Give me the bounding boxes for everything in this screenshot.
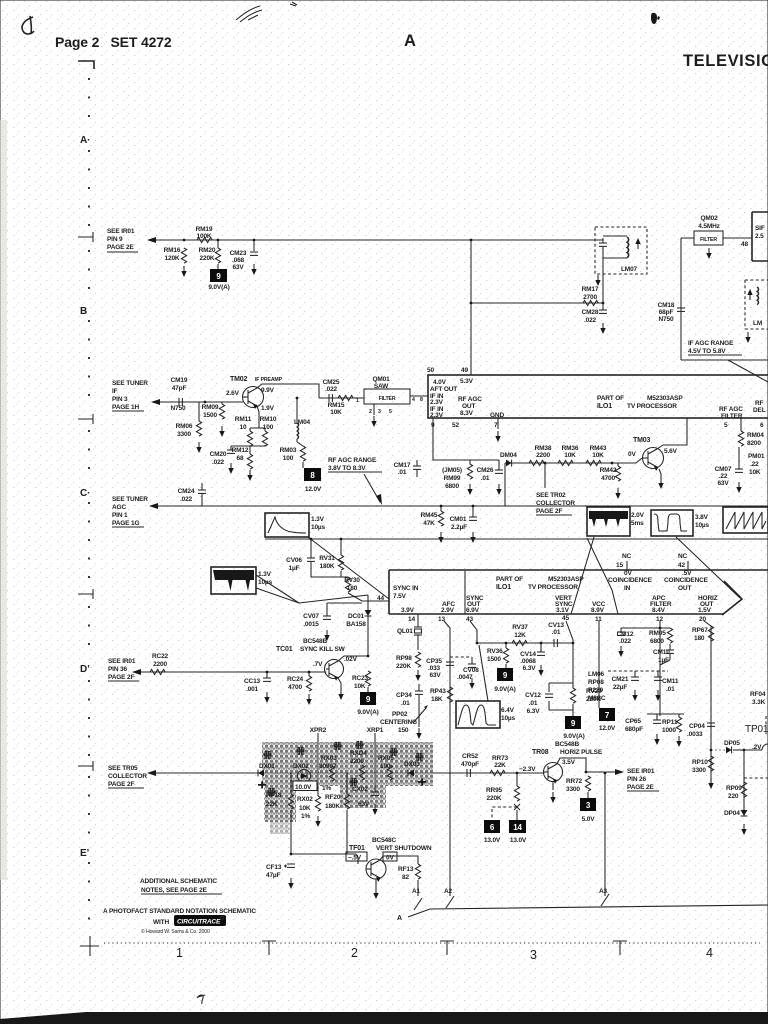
capacitor CM26: [477, 460, 503, 495]
svg-text:AFT OUT: AFT OUT: [430, 386, 457, 393]
svg-text:.0015: .0015: [303, 621, 319, 628]
svg-text:5: 5: [389, 409, 392, 415]
svg-text:.022: .022: [584, 317, 597, 324]
svg-text:150: 150: [398, 727, 409, 734]
resistor RX02: [297, 796, 321, 827]
svg-text:RM06: RM06: [176, 423, 193, 430]
svg-text:1µF: 1µF: [289, 565, 300, 572]
svg-text:1.9V: 1.9V: [261, 405, 275, 412]
svg-text:2.5: 2.5: [755, 233, 764, 240]
IC1 internal labels: [430, 378, 504, 419]
label BC548B TC01 SYNC KILL SW: [276, 638, 346, 653]
svg-text:CP35: CP35: [426, 658, 442, 665]
svg-text:RC24: RC24: [287, 676, 304, 683]
svg-text:63V: 63V: [717, 480, 729, 487]
svg-text:68: 68: [237, 455, 244, 462]
svg-text:TC01: TC01: [276, 646, 293, 653]
resistor RV36: [487, 643, 509, 668]
inductor LM07 dashed box: [595, 227, 647, 274]
diode DC01: [346, 595, 371, 656]
wire TC01 collector: [338, 656, 368, 661]
test point 6 (black square): [484, 820, 501, 844]
capacitor CM28: [582, 303, 607, 334]
bottom black bar: [0, 1012, 768, 1024]
svg-text:DX02: DX02: [293, 763, 309, 770]
label SEE IR01 PIN 26 PAGE 2E: [627, 768, 659, 791]
svg-text:63V: 63V: [429, 672, 441, 679]
capacitor CM17: [394, 460, 421, 477]
svg-text:RM16: RM16: [164, 247, 181, 254]
svg-text:DP05: DP05: [724, 740, 740, 747]
resistor RM06: [176, 402, 202, 453]
IC1 part number text: [597, 395, 683, 410]
IC SIF box left edge: [741, 212, 768, 261]
voltage 10.0V boxed: [293, 781, 317, 791]
svg-text:PAGE 2E: PAGE 2E: [627, 784, 654, 791]
svg-text:3: 3: [378, 409, 381, 415]
svg-text:CV13: CV13: [548, 622, 564, 629]
svg-text:1500: 1500: [487, 656, 501, 663]
svg-text:CM23: CM23: [230, 250, 247, 257]
IC2 bottom edge labels: [401, 595, 718, 614]
svg-text:0V: 0V: [628, 451, 636, 458]
svg-text:3.8V: 3.8V: [695, 514, 709, 521]
svg-text:220K: 220K: [396, 663, 411, 670]
filter QM02: [694, 215, 723, 245]
svg-text:3.5V: 3.5V: [562, 759, 576, 766]
capacitor CV07: [303, 603, 331, 641]
svg-text:COINCIDENCE: COINCIDENCE: [608, 577, 653, 584]
wire lower rail: [265, 538, 768, 540]
resistor RM42: [600, 463, 621, 499]
resistor RM99 (JM05): [442, 460, 473, 495]
svg-text:SIF: SIF: [755, 225, 765, 232]
wire pin45 drop: [566, 621, 573, 683]
svg-text:BC548C: BC548C: [372, 837, 396, 844]
svg-text:.01: .01: [552, 629, 561, 636]
resistor RM16: [164, 247, 187, 277]
svg-text:RF AGC RANGE: RF AGC RANGE: [328, 457, 377, 464]
svg-text:3.1V: 3.1V: [556, 607, 570, 614]
svg-text:ILO1: ILO1: [597, 403, 612, 410]
svg-text:63V: 63V: [358, 801, 370, 808]
pin 42 NC: [678, 553, 688, 570]
test point 7 (black square): [599, 708, 616, 732]
svg-text:RM19: RM19: [196, 226, 213, 233]
resistor RP67: [692, 626, 714, 642]
node DP05: [710, 749, 713, 752]
wire riser to IC1 pin 49: [470, 240, 472, 375]
svg-text:FILTER: FILTER: [379, 396, 396, 402]
svg-text:AGC: AGC: [112, 504, 126, 511]
capacitor CM21: [612, 671, 639, 701]
svg-text:47µF: 47µF: [266, 872, 281, 879]
test point 14 (black square): [509, 810, 527, 844]
svg-text:CV06: CV06: [286, 557, 302, 564]
svg-text:PAGE 1H: PAGE 1H: [112, 404, 139, 411]
svg-text:1: 1: [176, 946, 183, 960]
svg-text:8.9V: 8.9V: [591, 607, 605, 614]
pointer W2 upper: [256, 588, 368, 603]
resistor RP11: [662, 714, 682, 747]
waveform box W4 vert pulse: [651, 510, 710, 536]
wire XRP1 drop: [374, 733, 376, 786]
smudged labels LM06 RP08: [588, 671, 606, 702]
svg-text:49: 49: [461, 367, 468, 374]
svg-text:5.6V: 5.6V: [664, 448, 678, 455]
svg-text:RM20: RM20: [199, 247, 216, 254]
svg-text:4.5MHz: 4.5MHz: [698, 223, 720, 230]
svg-text:SAW: SAW: [374, 383, 389, 390]
svg-text:CM17: CM17: [394, 462, 411, 469]
svg-text:1%: 1%: [322, 785, 331, 792]
wire pin20 drop: [704, 621, 711, 782]
wire pin11 drop: [598, 621, 600, 708]
test point TP01: [745, 716, 768, 735]
svg-text:CX02: CX02: [352, 786, 368, 793]
svg-text:5.3V: 5.3V: [460, 378, 474, 385]
capacitor CM10: [653, 644, 674, 665]
svg-text:A·: A·: [80, 135, 90, 146]
svg-text:RP08: RP08: [588, 679, 604, 686]
ink blob top right: [651, 13, 660, 24]
svg-text:2: 2: [369, 409, 372, 415]
svg-text:COLLECTOR: COLLECTOR: [108, 773, 147, 780]
wire TF01 base rail: [291, 854, 358, 864]
svg-text:RM45: RM45: [421, 512, 438, 519]
svg-text:RP98: RP98: [396, 655, 412, 662]
svg-text:CM01: CM01: [450, 516, 467, 523]
margin tick B-row: [78, 232, 93, 242]
dash line right: [744, 777, 768, 779]
svg-text:RM15: RM15: [328, 402, 345, 409]
capacitor CM19 series: [171, 377, 188, 412]
svg-text:.068: .068: [232, 257, 245, 264]
svg-text:DC01: DC01: [348, 613, 365, 620]
svg-text:N750: N750: [171, 405, 186, 412]
svg-text:1.5V: 1.5V: [698, 607, 712, 614]
svg-text:TP01: TP01: [745, 724, 768, 735]
tick A1: [414, 898, 422, 910]
resistor RV31: [319, 539, 343, 577]
svg-text:7.5V: 7.5V: [393, 593, 407, 600]
wire TM03 collector to pin5: [657, 418, 687, 449]
resistor RV37 series: [512, 624, 528, 646]
svg-text:82: 82: [402, 874, 409, 881]
svg-text:5: 5: [724, 422, 728, 429]
svg-text:7: 7: [494, 422, 498, 429]
svg-text:RM36: RM36: [562, 445, 579, 452]
svg-text:RR73: RR73: [492, 755, 509, 762]
ruler T mark 1: [262, 941, 276, 955]
svg-text:5.0V: 5.0V: [582, 816, 596, 823]
resistor RV30: [344, 577, 389, 601]
svg-text:100: 100: [263, 424, 274, 431]
svg-text:A2: A2: [444, 888, 453, 895]
svg-text:XRP1: XRP1: [367, 727, 384, 734]
resistor RC23: [352, 671, 371, 692]
wire pin9 drop: [433, 418, 499, 460]
svg-text:RM17: RM17: [582, 286, 599, 293]
svg-text:PM01: PM01: [748, 453, 765, 460]
svg-text:−.5V: −.5V: [348, 855, 362, 862]
svg-text:GND: GND: [490, 412, 504, 419]
capacitor CP34: [396, 684, 423, 707]
svg-text:10K: 10K: [330, 409, 342, 416]
resistor RM17: [582, 286, 599, 306]
svg-text:2.9V: 2.9V: [441, 607, 455, 614]
svg-text:7: 7: [605, 711, 610, 720]
svg-text:180: 180: [694, 635, 705, 642]
svg-text:RM43: RM43: [590, 445, 607, 452]
svg-text:RF04: RF04: [750, 691, 766, 698]
svg-text:6800: 6800: [445, 483, 459, 490]
svg-text:10µs: 10µs: [501, 715, 516, 722]
resistor RF18: [266, 773, 294, 854]
svg-text:CP65: CP65: [625, 718, 641, 725]
label RF AGC RANGE 3.8-8.3: [328, 457, 382, 472]
wire rail to RM17: [471, 302, 603, 304]
svg-text:9: 9: [216, 272, 221, 281]
hash marks: [264, 741, 423, 795]
wire QM02 rail: [681, 237, 752, 239]
svg-text:NC: NC: [622, 553, 632, 560]
wire A3 drop: [604, 773, 606, 896]
svg-text:.01: .01: [666, 686, 675, 693]
note additional schematic: [140, 878, 222, 894]
capacitor CV08: [450, 657, 479, 689]
svg-text:SEE IR01: SEE IR01: [627, 768, 655, 775]
wire AGC rail: [150, 505, 768, 507]
svg-text:SYNC IN: SYNC IN: [393, 585, 419, 592]
svg-text:1µF: 1µF: [658, 657, 669, 664]
svg-text:OUT: OUT: [462, 403, 475, 410]
svg-text:PAGE 2E: PAGE 2E: [107, 244, 134, 251]
svg-text:−2.3V: −2.3V: [519, 766, 536, 773]
wire see TR02 riser: [544, 463, 546, 488]
svg-text:.01: .01: [401, 700, 410, 707]
pointer W3 to pin45: [571, 537, 594, 614]
diode DX02 circled: [293, 763, 311, 783]
waveform box W1 sawtooth: [265, 513, 326, 537]
svg-text:13.0V: 13.0V: [484, 837, 501, 844]
resistor RM11: [235, 416, 253, 446]
svg-text:120K: 120K: [165, 255, 180, 262]
wire horiz pulse rail: [148, 772, 544, 774]
svg-text:9.0V(A): 9.0V(A): [563, 733, 584, 740]
svg-text:RF AGC: RF AGC: [719, 406, 743, 413]
capacitor CV14: [520, 643, 545, 676]
resistor RF13: [398, 864, 421, 896]
svg-text:LM: LM: [753, 320, 762, 327]
svg-text:IF PREAMP: IF PREAMP: [255, 377, 283, 383]
svg-text:3300: 3300: [692, 767, 706, 774]
resistor RXD4: [350, 750, 367, 780]
svg-text:RF20: RF20: [325, 794, 341, 801]
tick A3: [601, 894, 609, 906]
svg-text:CIRCUITRACE: CIRCUITRACE: [177, 919, 221, 926]
svg-text:10µs: 10µs: [695, 522, 710, 529]
pin 15 NC: [616, 553, 632, 570]
svg-text:RP43: RP43: [430, 688, 446, 695]
svg-text:15: 15: [616, 562, 623, 569]
test point 8 (black square): [304, 468, 322, 493]
pointer W1 to pin44: [308, 537, 389, 599]
svg-text:BC548B: BC548B: [303, 638, 327, 645]
svg-text:CM24: CM24: [178, 488, 195, 495]
svg-text:FILTER: FILTER: [721, 413, 743, 420]
resistor RM10: [260, 416, 277, 446]
wire TC01 base rail: [133, 671, 326, 673]
svg-text:80907: 80907: [319, 763, 337, 770]
IC1 right labels RF DEL: [753, 400, 766, 429]
svg-text:HORIZ PULSE: HORIZ PULSE: [560, 749, 603, 756]
wire LM07 down leg: [602, 258, 604, 303]
svg-text:LM06: LM06: [588, 671, 605, 678]
test point 9 (black square): [208, 269, 229, 291]
capacitor CM18: [658, 302, 685, 323]
svg-text:CP34: CP34: [396, 692, 412, 699]
svg-text:.022: .022: [619, 638, 632, 645]
transistor TC01: [325, 660, 344, 681]
svg-text:6.3V: 6.3V: [527, 708, 541, 715]
svg-text:10K: 10K: [299, 805, 311, 812]
svg-text:2200: 2200: [350, 758, 364, 765]
svg-text:CC13: CC13: [244, 678, 261, 685]
svg-text:4700: 4700: [288, 684, 302, 691]
svg-text:10K: 10K: [592, 452, 604, 459]
svg-text:220: 220: [728, 793, 739, 800]
svg-text:10K: 10K: [354, 683, 366, 690]
svg-text:RV30: RV30: [344, 577, 360, 584]
wire TF01 collector: [380, 856, 418, 864]
svg-text:PAGE 2F: PAGE 2F: [108, 781, 134, 788]
ruler T mark 3: [613, 941, 627, 955]
IC2 coincidence out labels: [664, 570, 709, 592]
svg-text:SYNC KILL SW: SYNC KILL SW: [300, 646, 346, 653]
resistor RX03: [319, 755, 337, 792]
svg-text:0V: 0V: [624, 570, 632, 577]
svg-text:42: 42: [678, 562, 685, 569]
wire XPR2 drop: [317, 733, 319, 796]
svg-text:RC23: RC23: [352, 675, 369, 682]
svg-text:RP09: RP09: [726, 785, 742, 792]
wire SAW to IC1: [410, 395, 428, 397]
svg-text:CM21: CM21: [612, 676, 629, 683]
svg-text:1000: 1000: [662, 727, 676, 734]
wire CV06/RV31 join: [311, 576, 348, 578]
svg-text:SEE IR01: SEE IR01: [108, 658, 136, 665]
svg-text:RF13: RF13: [398, 866, 414, 873]
svg-text:9: 9: [503, 671, 508, 680]
resistor PM01 (smudged): [748, 453, 765, 476]
svg-text:9.0V(A): 9.0V(A): [357, 709, 378, 716]
wire bus A baseline: [408, 905, 768, 917]
waveform box W5 sawtooth: [723, 507, 768, 533]
svg-text:RF AGC: RF AGC: [458, 396, 482, 403]
label RF04 3.3K: [750, 691, 766, 706]
svg-text:1500: 1500: [203, 412, 217, 419]
svg-text:2.6V: 2.6V: [226, 390, 240, 397]
svg-text:2.3V: 2.3V: [430, 399, 444, 406]
resistor RM20: [199, 240, 221, 269]
wire emitter row: [231, 428, 265, 454]
waveform box W2 sync black: [211, 567, 273, 594]
svg-text:M52303ASP: M52303ASP: [647, 395, 683, 402]
svg-text:RV37: RV37: [512, 624, 528, 631]
resistor RX05: [378, 755, 394, 780]
svg-text:CM18: CM18: [658, 302, 675, 309]
svg-text:RM09: RM09: [202, 404, 219, 411]
svg-text:680pF: 680pF: [625, 726, 643, 733]
svg-text:PAGE 1G: PAGE 1G: [112, 520, 139, 527]
dashed join CM21 CM11: [608, 670, 668, 672]
test point 9 RV36 (black square): [494, 668, 515, 693]
svg-text:CM10: CM10: [653, 649, 670, 656]
svg-text:14: 14: [513, 823, 522, 832]
label SEE TR02 COLLECTOR PAGE 2F: [536, 492, 575, 515]
svg-text:CM25: CM25: [323, 379, 340, 386]
resistor RP98: [396, 652, 421, 681]
capacitor CP35: [426, 658, 454, 679]
pin 7 GND: [494, 418, 501, 442]
svg-text:68pF: 68pF: [659, 309, 674, 316]
svg-text:RM10: RM10: [260, 416, 277, 423]
stipple fringe: [270, 822, 290, 834]
bottom ruler dots: [104, 942, 760, 944]
svg-text:4: 4: [412, 397, 415, 403]
svg-text:1%: 1%: [301, 813, 310, 820]
svg-text:PART OF: PART OF: [597, 395, 624, 402]
wire DP05 node drop: [743, 750, 745, 810]
waveform box W6: [456, 701, 516, 728]
wire TR08 emitter: [550, 782, 555, 803]
svg-text:22µF: 22µF: [613, 684, 628, 691]
svg-text:6.4V: 6.4V: [501, 707, 515, 714]
transistor TM03: [642, 448, 664, 472]
LM07 coil element: [603, 236, 629, 258]
diode DX01: [258, 763, 275, 788]
stipple block left lower: [264, 786, 296, 822]
LM08 down arrow: [745, 332, 750, 343]
svg-text:RF: RF: [755, 400, 764, 407]
op-amp U1b band outline IC2: [389, 570, 768, 614]
wire pin12 drop: [621, 621, 670, 714]
svg-text:BA158: BA158: [346, 621, 366, 628]
svg-text:Page 2 SET 4272: Page 2 SET 4272: [55, 34, 172, 50]
pencil scribble top: [236, 6, 262, 22]
svg-text:12K: 12K: [514, 632, 526, 639]
resistor RC24: [287, 672, 312, 705]
wire IF AGC rail: [681, 359, 768, 361]
wire TM03 emitter: [658, 469, 663, 489]
svg-text:COINCIDENCE: COINCIDENCE: [664, 577, 709, 584]
test point 3 (black square): [580, 798, 596, 823]
diode DM04: [500, 452, 517, 466]
margin tick C-row: [78, 414, 93, 424]
wire IF to SAW: [319, 397, 364, 399]
svg-text:5ms: 5ms: [631, 520, 644, 527]
svg-text:6.9V: 6.9V: [466, 607, 480, 614]
svg-text:13.0V: 13.0V: [510, 837, 527, 844]
svg-text:CM12: CM12: [617, 631, 634, 638]
svg-text:CM20: CM20: [210, 451, 227, 458]
svg-text:10K: 10K: [749, 469, 761, 476]
svg-text:2200: 2200: [536, 452, 550, 459]
capacitor CM23: [230, 240, 258, 275]
svg-text:.22: .22: [750, 461, 759, 468]
svg-text:10.0V: 10.0V: [295, 784, 312, 791]
